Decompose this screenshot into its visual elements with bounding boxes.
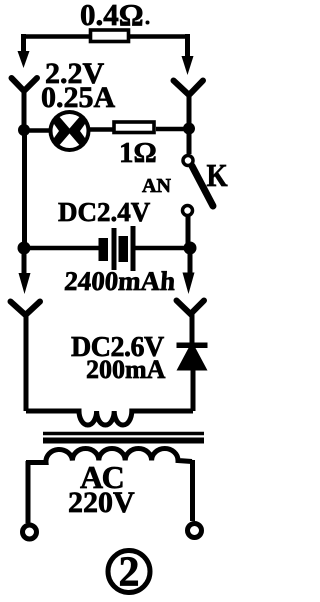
junction dot: left rail / battery wire [18, 242, 31, 255]
svg-text:2: 2 [119, 550, 140, 596]
svg-text:0.25A: 0.25A [41, 81, 116, 114]
wire: left rail below battery [22, 248, 27, 274]
connector socket Y (right top) [174, 81, 204, 96]
wire: right rail socket to switch [187, 93, 192, 154]
junction dot: right rail / lamp wire [183, 123, 195, 135]
svg-text:220V: 220V [68, 486, 135, 519]
svg-text:200mA: 200mA [86, 355, 166, 384]
svg-text:DC2.4V: DC2.4V [58, 197, 151, 227]
connector socket Y (left top) [12, 78, 38, 91]
speck: period after 0.4 ohm label [146, 21, 150, 25]
terminal: AC plug left [23, 525, 37, 539]
connector socket Y (right lower) [177, 301, 205, 315]
transformer T1 primary winding (5 bumps, facing up) [26, 449, 192, 463]
connector plug arrow (left top, pointing down) [18, 51, 30, 68]
svg-text:1Ω: 1Ω [119, 137, 157, 169]
diode D (cathode up) [177, 343, 208, 371]
wire: R2 to right rail node [156, 127, 190, 132]
lamp EL (2.2V 0.25A) [49, 107, 91, 155]
wire: left rail from socket to lamp node [22, 89, 27, 131]
wire: left rail lamp node to battery node [22, 129, 27, 249]
wire: lamp to R2 [87, 127, 114, 132]
wire: node to lamp [24, 128, 52, 133]
svg-text:0.4Ω: 0.4Ω [80, 0, 144, 32]
wire: right rail below battery [188, 248, 193, 274]
connector plug arrow (left lower, pointing down) [19, 273, 31, 294]
wire: battery row left segment [24, 246, 99, 251]
connector socket Y (left lower) [11, 302, 41, 316]
transformer T1 core (two lamination bars) [43, 432, 204, 436]
transformer T1 secondary winding (3 bumps, facing down) [26, 411, 193, 425]
wire: left rail top stub [21, 34, 26, 51]
wire: switch to battery node [186, 216, 191, 251]
connector plug arrow (right top, pointing down) [182, 56, 194, 75]
svg-text:AN: AN [142, 175, 171, 197]
wire: primary left lead down [26, 461, 31, 523]
connector plug arrow (right lower, pointing down) [183, 273, 195, 295]
wire: right rail socket to diode [190, 312, 195, 345]
svg-text:2400mAh: 2400mAh [63, 266, 176, 296]
wire: battery row right segment [135, 246, 190, 251]
wire: top horizontal bus [21, 34, 189, 39]
resistor R2 (1 ohm) [114, 122, 154, 133]
junction dot: right rail / battery wire [184, 242, 197, 255]
wire: left rail socket down to transformer secondary [24, 313, 29, 411]
terminal: AC plug right [188, 524, 202, 538]
junction dot: left rail / lamp wire [18, 124, 30, 136]
wire: primary right lead down [190, 460, 195, 521]
battery GB (DC2.4V 2400mAh) [99, 226, 136, 271]
wire: diode anode down to transformer secondary right corner [191, 369, 196, 411]
switch K [183, 156, 214, 216]
figure number 2 (circled) [108, 550, 150, 596]
resistor R1 (0.4 ohm) [91, 30, 129, 42]
wire: right rail top stub [185, 34, 190, 57]
svg-text:K: K [207, 159, 228, 193]
